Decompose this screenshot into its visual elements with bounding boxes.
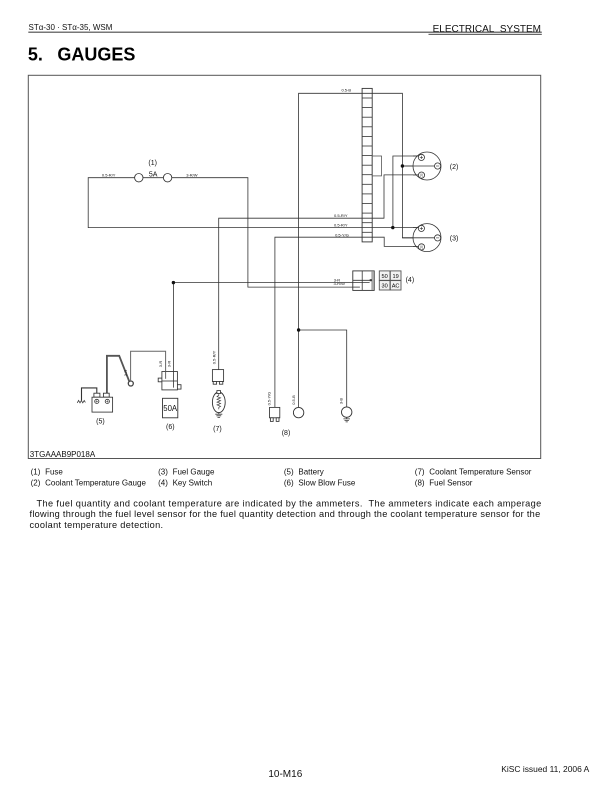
svg-text:5A: 5A [149, 171, 158, 178]
svg-text:(I): (I) [420, 173, 423, 177]
svg-text:(4): (4) [158, 478, 168, 487]
svg-text:Fuel Sensor: Fuel Sensor [429, 478, 472, 487]
svg-text:ELECTRICAL SYSTEM: ELECTRICAL SYSTEM [433, 24, 541, 35]
svg-text:0.5-R/Y: 0.5-R/Y [102, 173, 116, 178]
svg-text:(8): (8) [415, 478, 425, 487]
svg-text:Fuse: Fuse [45, 468, 63, 477]
svg-text:(1): (1) [31, 468, 41, 477]
svg-text:(5): (5) [284, 468, 294, 477]
svg-text:(1): (1) [148, 160, 157, 167]
svg-text:(8): (8) [282, 430, 291, 437]
svg-text:(I): (I) [420, 245, 423, 249]
svg-text:(6): (6) [166, 424, 175, 431]
svg-text:(5): (5) [96, 418, 105, 425]
svg-text:(7): (7) [213, 426, 222, 433]
svg-text:5.: 5. [28, 44, 43, 64]
svg-text:(2): (2) [31, 478, 41, 487]
svg-text:50A: 50A [163, 404, 178, 413]
svg-text:3-B: 3-B [339, 398, 344, 405]
svg-text:30: 30 [381, 284, 387, 290]
svg-text:0.5-R/Y: 0.5-R/Y [211, 350, 216, 364]
svg-text:Slow Blow Fuse: Slow Blow Fuse [298, 478, 355, 487]
svg-text:3-R: 3-R [123, 370, 128, 377]
svg-text:3-R: 3-R [158, 361, 163, 368]
svg-text:Coolant Temperature Sensor: Coolant Temperature Sensor [429, 468, 531, 477]
svg-text:(6): (6) [284, 478, 294, 487]
svg-text:3TGAAAB9P018A: 3TGAAAB9P018A [30, 450, 96, 459]
svg-text:Fuel Gauge: Fuel Gauge [173, 468, 215, 477]
svg-text:AC: AC [392, 284, 400, 290]
svg-text:GAUGES: GAUGES [57, 44, 135, 64]
svg-text:The fuel quantity and coolant: The fuel quantity and coolant temperatur… [37, 499, 542, 509]
svg-text:0.5-Y/G: 0.5-Y/G [266, 392, 271, 406]
svg-text:0.5-Y/G: 0.5-Y/G [335, 232, 349, 237]
svg-text:0.5-B: 0.5-B [291, 395, 296, 405]
svg-text:(3): (3) [450, 236, 459, 243]
svg-text:(4): (4) [406, 277, 415, 284]
svg-text:0.5-B: 0.5-B [341, 88, 351, 93]
svg-text:Key Switch: Key Switch [173, 478, 213, 487]
svg-text:coolant temperature detection.: coolant temperature detection. [30, 520, 164, 530]
svg-text:19: 19 [392, 274, 398, 280]
svg-text:(2): (2) [450, 164, 459, 171]
svg-text:(3): (3) [158, 468, 168, 477]
svg-text:0.5-R/Y: 0.5-R/Y [334, 213, 348, 218]
svg-text:3-R: 3-R [166, 361, 171, 368]
svg-text:3-R/W: 3-R/W [186, 173, 198, 178]
svg-text:KiSC issued 11, 2006 A: KiSC issued 11, 2006 A [501, 764, 589, 774]
svg-text:Battery: Battery [298, 468, 323, 477]
svg-text:(7): (7) [415, 468, 425, 477]
svg-text:50: 50 [381, 274, 387, 280]
svg-text:flowing through the fuel level: flowing through the fuel level sensor fo… [30, 509, 541, 519]
svg-text:3-R/W: 3-R/W [334, 281, 346, 286]
svg-text:0.5-R/Y: 0.5-R/Y [334, 223, 348, 228]
svg-text:10-M16: 10-M16 [268, 769, 302, 780]
svg-text:Coolant Temperature Gauge: Coolant Temperature Gauge [45, 478, 146, 487]
svg-text:STα-30 · STα-35, WSM: STα-30 · STα-35, WSM [29, 23, 113, 32]
